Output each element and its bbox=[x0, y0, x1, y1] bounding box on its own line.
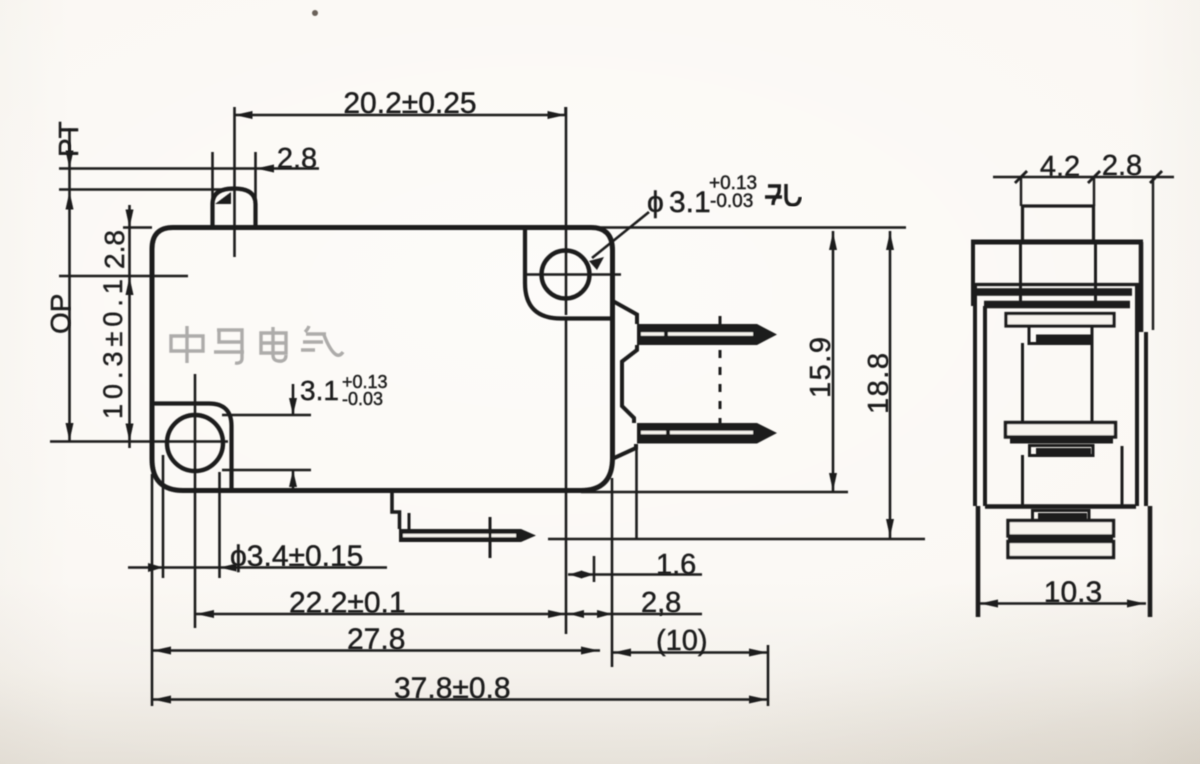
svg-text:-0.03: -0.03 bbox=[342, 389, 383, 409]
svg-text:ϕ: ϕ bbox=[647, 186, 664, 219]
svg-text:4.2: 4.2 bbox=[1040, 151, 1080, 183]
svg-text:OP: OP bbox=[45, 294, 76, 334]
svg-text:20.2±0.25: 20.2±0.25 bbox=[343, 87, 476, 120]
svg-text:2.8: 2.8 bbox=[277, 143, 317, 175]
svg-text:3.1: 3.1 bbox=[300, 375, 339, 406]
svg-text:10.3: 10.3 bbox=[1044, 576, 1102, 609]
svg-text:2.8: 2.8 bbox=[99, 230, 130, 269]
svg-text:PT: PT bbox=[53, 121, 84, 157]
svg-text:(10): (10) bbox=[656, 625, 708, 657]
svg-text:-0.03: -0.03 bbox=[710, 191, 753, 212]
svg-text:27.8: 27.8 bbox=[347, 623, 405, 656]
svg-text:1.6: 1.6 bbox=[656, 549, 696, 581]
svg-text:2.8: 2.8 bbox=[1102, 150, 1142, 182]
svg-text:22.2±0.1: 22.2±0.1 bbox=[289, 587, 406, 620]
svg-text:ϕ3.4±0.15: ϕ3.4±0.15 bbox=[230, 540, 363, 573]
svg-text:3.1: 3.1 bbox=[669, 186, 711, 219]
svg-text:37.8±0.8: 37.8±0.8 bbox=[394, 672, 511, 705]
svg-text:18.8: 18.8 bbox=[863, 352, 895, 414]
svg-text:15.9: 15.9 bbox=[805, 336, 837, 398]
svg-text:10.3±0.1: 10.3±0.1 bbox=[98, 274, 128, 419]
svg-text:2,8: 2,8 bbox=[641, 587, 681, 619]
